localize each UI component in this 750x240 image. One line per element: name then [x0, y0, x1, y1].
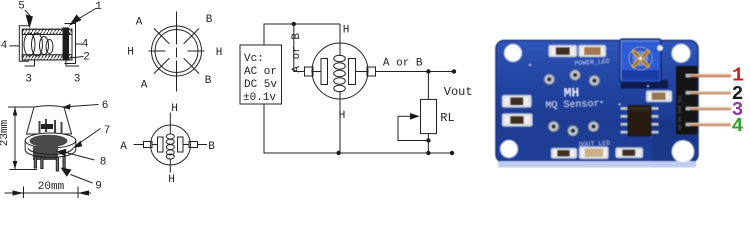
- node junction H bottom: [336, 151, 340, 155]
- svg-text:B: B: [208, 141, 215, 153]
- pin line A upper-left: [154, 28, 170, 44]
- wire left electrode: [294, 24, 305, 72]
- sensor body dark block: [33, 146, 58, 160]
- terminal left rect: [305, 67, 314, 76]
- leader bracket for 3 right: [66, 59, 79, 67]
- electrode black bar: [63, 28, 69, 60]
- svg-text:H: H: [171, 103, 178, 115]
- svg-text:5: 5: [18, 1, 25, 13]
- SMD resistor left2: [502, 114, 533, 127]
- socket pad 6: [588, 121, 599, 132]
- wire to A: [134, 144, 144, 146]
- left plate: [158, 137, 164, 152]
- wire H bottom: [339, 91, 341, 153]
- header pin stubs: [686, 74, 691, 78]
- coil ellipse 2: [32, 33, 43, 56]
- wire to RL: [427, 72, 429, 100]
- IC op-amp U1: [621, 106, 659, 137]
- wire H top: [339, 24, 341, 56]
- dimension 23mm top arrow: [13, 107, 18, 116]
- via 2: [618, 103, 620, 105]
- node junction RL bottom: [426, 151, 430, 155]
- electrode pin A: [39, 121, 41, 133]
- pin 2: [690, 91, 731, 94]
- svg-text:±0.1v: ±0.1v: [243, 92, 276, 104]
- dimension 20mm line: [5, 192, 92, 194]
- svg-text:A: A: [141, 80, 148, 92]
- mounting hole bottom-left: [500, 140, 517, 157]
- lead left plate: [152, 144, 158, 146]
- mounting hole bottom-right: [672, 141, 694, 163]
- heater coil loops: [166, 134, 174, 139]
- SMD resistor mid-right: [646, 91, 672, 103]
- socket pad 3: [589, 75, 600, 86]
- coil ellipse 4: [46, 40, 53, 54]
- svg-text:4: 4: [732, 115, 744, 137]
- svg-text:B: B: [205, 75, 212, 87]
- socket pad 5: [568, 126, 579, 137]
- PCB board: [496, 41, 698, 163]
- svg-text:Vout: Vout: [444, 85, 473, 99]
- leader line for 8: [66, 153, 95, 161]
- arrowhead for 1: [69, 15, 82, 27]
- right cap bracket: [65, 24, 76, 64]
- via 1: [600, 101, 602, 103]
- lead right plate: [183, 144, 189, 146]
- inner circle: [155, 30, 198, 73]
- sensor internal disc: [30, 135, 68, 148]
- terminal A rect: [144, 142, 153, 148]
- wire RL bottom: [427, 134, 429, 153]
- SMD dout LED bottom2: [579, 147, 609, 160]
- coil ellipse 1: [24, 33, 35, 56]
- svg-text:MH: MH: [563, 85, 579, 101]
- leader line for 7: [79, 129, 101, 144]
- svg-text:3: 3: [25, 74, 32, 86]
- wiper wire: [398, 116, 428, 140]
- svg-text:MQ Sensor: MQ Sensor: [545, 99, 599, 112]
- mounting hole top-right: [672, 44, 690, 62]
- svg-text:H: H: [339, 110, 346, 122]
- leader line for 2: [69, 57, 84, 59]
- svg-text:A or B: A or B: [291, 33, 303, 73]
- leader bracket for 3 left: [25, 59, 35, 67]
- dimension 23mm line: [14, 107, 16, 170]
- heater coil loops: [334, 55, 346, 62]
- wire right electrode: [376, 71, 455, 73]
- PCB bottom edge band: [498, 161, 696, 168]
- base ring inner bottom arc: [28, 148, 73, 154]
- screw center highlight: [639, 57, 643, 61]
- PCB shading top: [498, 42, 696, 51]
- trimpot dark base: [621, 80, 668, 89]
- node Vout top: [452, 69, 456, 73]
- leader line for 5: [25, 10, 31, 17]
- svg-text:H: H: [343, 25, 350, 37]
- pin 4: [690, 123, 731, 126]
- wire H bottom: [169, 159, 171, 173]
- socket pad 2: [570, 70, 581, 81]
- trimpot body: [620, 39, 661, 82]
- right plate: [178, 137, 184, 152]
- mounting hole top-left: [504, 44, 521, 61]
- wiper arrowhead: [410, 113, 420, 120]
- via 3: [647, 85, 649, 87]
- svg-text:H: H: [127, 47, 134, 59]
- arrowhead for 5: [26, 15, 34, 29]
- svg-text:RL: RL: [440, 111, 454, 125]
- wiper arrow line: [398, 115, 411, 117]
- svg-text:23mm: 23mm: [0, 119, 11, 146]
- leader line for 4 left: [10, 45, 20, 47]
- svg-text:1: 1: [95, 1, 102, 13]
- dimension 20mm right tick: [77, 187, 79, 199]
- pin 3: [56, 158, 58, 172]
- svg-text:H: H: [168, 174, 175, 186]
- svg-text:A: A: [136, 17, 143, 29]
- pin 2: [41, 158, 43, 169]
- socket pad 4: [548, 121, 559, 132]
- sensor body outline: [22, 29, 72, 60]
- svg-text:4: 4: [1, 40, 8, 52]
- trimpot white dot: [657, 45, 663, 51]
- SMD resistor left1: [502, 95, 532, 108]
- trimpot inner shade: [622, 70, 659, 80]
- pin line B lower-right: [184, 58, 200, 74]
- trimpot screw: [629, 47, 652, 70]
- lead left: [313, 71, 321, 73]
- dimension 20mm left arrow: [13, 190, 24, 195]
- right plate: [349, 59, 356, 85]
- hatched bottom wall: [22, 55, 72, 60]
- extension line top: [8, 106, 34, 108]
- pin 1: [690, 74, 731, 77]
- wire to B: [198, 144, 208, 146]
- pin line H left: [149, 50, 166, 52]
- wire bottom from box: [264, 104, 452, 153]
- svg-text:8: 8: [100, 157, 107, 169]
- electrode pin C: [54, 120, 56, 133]
- resistor RL box: [421, 99, 437, 133]
- pin 1: [34, 157, 36, 169]
- svg-text:3: 3: [74, 74, 81, 86]
- extension line bottom: [10, 169, 38, 171]
- left plate: [321, 59, 328, 85]
- svg-text:H: H: [216, 47, 223, 59]
- svg-text:7: 7: [104, 125, 111, 137]
- node Vout bottom: [450, 151, 454, 155]
- svg-text:Vc:: Vc:: [244, 53, 264, 65]
- svg-text:A or B: A or B: [383, 58, 423, 70]
- pin line A lower-left: [154, 58, 170, 74]
- node junction top: [292, 22, 296, 26]
- socket pad 1: [544, 74, 555, 85]
- dimension 20mm right arrow: [78, 190, 89, 195]
- pin line B upper-right: [184, 28, 200, 44]
- svg-text:B: B: [206, 14, 213, 26]
- dimension 23mm bottom arrow: [13, 161, 18, 170]
- PCB shading right dark: [652, 120, 696, 161]
- svg-text:6: 6: [102, 100, 109, 112]
- svg-text:4: 4: [82, 39, 89, 51]
- pin 4: [63, 157, 65, 169]
- outer circle: [152, 26, 202, 76]
- pin 3: [690, 107, 731, 110]
- hatched top wall: [22, 29, 72, 34]
- SMD resistor R1 top: [549, 45, 578, 57]
- dome: [27, 106, 72, 134]
- leader line for 9: [71, 175, 93, 184]
- coil ellipse 3: [40, 37, 49, 55]
- vertical center line: [176, 12, 178, 92]
- leader line for 6: [70, 105, 99, 107]
- svg-text:DC 5v: DC 5v: [244, 79, 277, 91]
- circle: [151, 125, 191, 165]
- svg-text:20mm: 20mm: [38, 181, 65, 193]
- lead right: [356, 71, 368, 73]
- svg-text:9: 9: [95, 181, 102, 193]
- via 4: [529, 64, 531, 66]
- pin line H right: [188, 50, 205, 52]
- leader line for 4 right: [76, 43, 84, 45]
- base ring top rim ellipse: [25, 133, 76, 148]
- node junction RL top: [426, 69, 430, 73]
- sensor circle: [312, 43, 368, 99]
- wire top from box: [264, 24, 340, 45]
- node wiper junction: [426, 138, 430, 142]
- svg-text:2: 2: [83, 52, 90, 64]
- arrowhead for 8: [56, 149, 67, 157]
- pin header connector: [676, 66, 698, 135]
- arrowhead for 6: [62, 104, 71, 110]
- wire H top: [169, 113, 171, 135]
- arrowhead for 9: [61, 168, 72, 177]
- SMD bottom1: [551, 148, 577, 159]
- arrowhead for 7: [73, 141, 83, 148]
- left cap bracket: [19, 26, 29, 61]
- leader line for 1: [79, 8, 97, 19]
- dimension 20mm left tick: [23, 187, 25, 199]
- base ring sides and bottom rim: [25, 141, 76, 158]
- SMD bottom3: [616, 148, 644, 159]
- electrode pin D: [61, 122, 63, 133]
- Vc source box: [240, 45, 282, 104]
- terminal right rect: [367, 67, 376, 76]
- SMD power LED top: [579, 45, 607, 57]
- svg-text:AO DO GND VCC: AO DO GND VCC: [677, 95, 683, 130]
- electrode pin B: [45, 119, 47, 132]
- svg-text:A: A: [120, 141, 127, 153]
- electrode dark bar: [41, 124, 53, 129]
- svg-text:AC or: AC or: [244, 66, 277, 78]
- terminal B rect: [189, 142, 198, 148]
